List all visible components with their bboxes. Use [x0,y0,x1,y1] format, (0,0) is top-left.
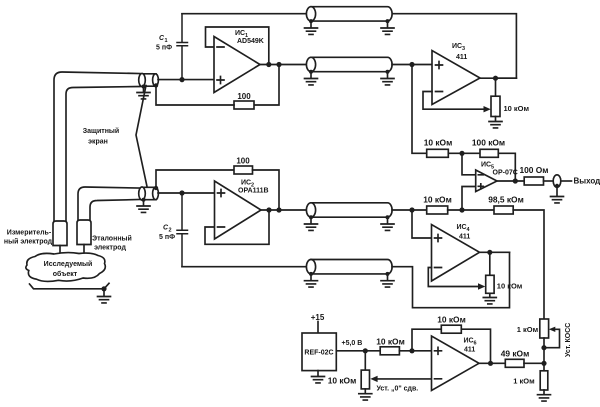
svg-text:ИС: ИС [452,43,462,50]
resistor R14 1 kOhm lower [540,371,548,390]
node object ground junction [101,286,106,291]
label RP10 value [328,375,357,385]
svg-text:Эталонный: Эталонный [92,235,132,243]
node U2 output junction a [266,207,271,212]
wire +5V node to offset pot [364,351,366,370]
cable shield W2 second coax [306,57,392,71]
ground pot RP10 [359,389,372,400]
op-amp U1 AD549K [214,37,260,93]
ground W4 shield right [381,274,394,287]
label RP4 value [497,282,523,291]
svg-text:ИС: ИС [464,338,474,345]
op-amp U4 411 [432,225,480,282]
wire U5 inverting input stub [462,153,476,175]
svg-text:10 кОм: 10 кОм [376,336,405,346]
wire R5 to U5 output [498,153,515,181]
label U1 designator [235,30,264,45]
cable shield W3 third coax [306,203,392,217]
capacitor C2 [177,193,188,267]
pot RP4 10 kOhm [486,275,494,293]
wire reference electrode signal line to connector J2 [90,200,140,222]
node U2 output junction b [276,207,281,212]
pot RP10 10 kOhm offset adjust [361,370,369,389]
svg-text:Выход: Выход [574,177,600,186]
ground pot RP3 [489,117,502,128]
ground W2 shield right [381,72,394,85]
svg-text:Исследуемый: Исследуемый [44,260,93,268]
op-amp U2 feedback loop wire [205,210,269,244]
svg-text:98,5 кОм: 98,5 кОм [488,194,524,204]
label R7 value [423,194,452,204]
node J1 shield right point [154,83,158,87]
voltage reference U7 REF-02C box [302,333,336,371]
label reference electrode [92,235,132,252]
svg-text:+15: +15 [311,313,325,322]
ground W1 shield left [305,21,318,34]
connector J2 coax jack [139,187,159,200]
label R5 value [472,138,505,148]
op-amp U6 411 [432,336,480,391]
ground W3 shield left [305,217,318,230]
connector output jack [553,175,561,187]
node U3 output junction [493,76,498,81]
node W3 shield right [386,215,390,219]
wire guard drive 2 to U2 output [253,170,280,210]
wire U3 output to pot RP3 [495,78,497,96]
wire R12 to KOCC rail [524,362,544,364]
wire C2 bootstrap to cable W4 [182,266,307,268]
label R1 value 100 [237,92,251,101]
label U2 designator [238,180,269,195]
node U6 output junction [488,361,493,366]
svg-text:Уст. КОСС: Уст. КОСС [565,323,572,357]
svg-text:Уст. „0" сдв.: Уст. „0" сдв. [377,386,419,393]
svg-text:REF-02C: REF-02C [304,350,333,357]
wire guard drive to J1 shield [156,86,234,106]
svg-text:100: 100 [236,157,250,166]
ground object [98,289,111,303]
node U1 output junction b [276,62,281,67]
label R4 value [424,138,453,148]
node +5V junction [363,348,368,353]
node 49k junction [541,361,546,366]
ground W4 shield left [305,274,318,287]
ground connector J1 [137,87,150,99]
svg-text:ИС: ИС [481,162,491,169]
svg-text:10 кОм: 10 кОм [497,282,523,291]
wire chassis line under object [30,283,110,289]
cable shield W1 top coax [306,7,392,21]
guard shield leader lines [136,86,147,187]
ground connector J2 [137,200,150,213]
node U6 noninverting junction [409,348,414,353]
wire REF output [336,350,380,352]
node output jack shield [555,184,559,188]
svg-text:ИС: ИС [235,30,245,37]
node W1 shield left [309,19,313,23]
ground R14 [538,390,551,401]
node W2 output junction [409,62,414,67]
node C1 junction at IC1 input [179,77,184,82]
label output [574,177,600,186]
pot RP13 1 kOhm KOCC [540,319,549,338]
label U4 designator [457,224,471,241]
svg-text:электрод: электрод [94,245,126,252]
op-amp U5 OP-07C [476,170,497,192]
label R6 value [519,165,548,175]
svg-text:OPA111B: OPA111B [238,188,269,195]
ground W2 shield left [305,72,318,85]
op-amp U1 feedback loop wire [206,27,269,65]
node U5 inverting junction [459,151,464,156]
wire U6 output to R12 [479,362,505,364]
node C2 junction at IC2 input [179,190,184,195]
svg-text:экран: экран [88,138,108,145]
svg-text:100 кОм: 100 кОм [472,138,505,148]
pot RP3 10 kOhm [491,96,500,116]
svg-text:10 кОм: 10 кОм [424,138,453,148]
svg-text:1: 1 [165,38,168,44]
svg-text:1 кОм: 1 кОм [513,377,535,386]
resistor R1 100 guard drive [234,101,254,109]
resistor R10 10 kOhm to U6 noninverting [380,347,399,355]
wire output jack to label [561,180,572,182]
label R2 value 100 [236,157,250,166]
wire U6 feedback loop [412,329,441,351]
label object under test [44,260,93,278]
wire W3 to summing row [392,209,427,211]
node W4 shield left [309,272,313,276]
label C1 value [156,35,172,52]
node W4 shield right [386,272,390,276]
wire U4 output to pot RP4 [489,252,491,275]
wire W2 to IC3 noninverting input [392,64,432,66]
svg-text:411: 411 [464,347,475,354]
cable shield W4 fourth coax [306,260,392,274]
wire U3 output [480,77,516,79]
pot RP10 wiper arrow [370,376,377,382]
label U6 designator [464,338,477,354]
svg-text:10 кОм: 10 кОм [328,375,357,385]
node U5 output junction [513,178,518,183]
svg-text:3: 3 [462,46,465,52]
node RP13 wiper junction [541,345,546,350]
connector J1 coax jack [139,73,159,86]
resistor R2 100 guard drive 2 [234,166,253,174]
svg-text:10 кОм: 10 кОм [437,314,466,324]
wire U5 output to R6 [497,180,524,182]
svg-text:5 пФ: 5 пФ [159,234,175,241]
resistor R7 10 kOhm to U5 noninverting [427,206,448,214]
resistor R4 10 kOhm to U5 inverting [427,149,449,157]
node U1 output junction a [266,62,271,67]
label R12 value [501,348,530,358]
svg-text:ный электрод: ный электрод [4,238,53,246]
wire measuring electrode signal line to connector J1 [66,87,140,223]
label offset adjust [377,386,419,393]
label R11 value [437,314,466,324]
object under test blob [26,253,105,282]
ground pot RP4 [483,293,496,304]
node J2 shield ground point [142,198,146,202]
wire U4 inverting input to pot wiper [428,268,479,287]
node W1 shield right [386,19,390,23]
label +5.0 V [342,340,363,347]
label R10 value [376,336,405,346]
wire U2 output to cable W3 [261,209,307,211]
label RP3 value [504,104,530,113]
svg-text:Защитный: Защитный [83,127,119,135]
measuring electrode body [53,221,67,254]
wire R11 to U6 output [461,329,490,363]
node U5 noninverting tap [459,207,464,212]
svg-text:411: 411 [456,54,467,61]
wire W2 node down to difference row [412,65,427,154]
wire U1 output to cable W2 [260,64,307,66]
label U7 REF-02C [304,350,333,357]
wire J1 center conductor to IC1 noninverting input [158,79,214,81]
wire RP10 wiper to U6 inverting input [377,378,432,380]
svg-text:объект: объект [53,270,78,278]
svg-text:100: 100 [237,92,251,101]
node U4 output junction [487,250,492,255]
node W2 shield left [309,70,313,74]
node W3 output junction [409,207,414,212]
svg-text:ИС: ИС [241,180,251,187]
op-amp U3 411 [432,51,480,105]
node J1 shield ground point [142,85,146,89]
wire U4 output [480,251,510,253]
label KOCC adjust vertical [565,323,572,357]
wire measuring electrode shield line to connector J1 [54,72,140,222]
op-amp U2 OPA111B [215,181,262,239]
node J2 shield top point [154,186,158,190]
svg-text:Измеритель-: Измеритель- [7,230,52,237]
pot RP13 wiper arrow [549,327,556,332]
svg-text:100 Ом: 100 Ом [519,165,548,175]
wire reference electrode shield line to connector J2 [78,187,140,221]
pot RP4 wiper arrow [478,283,485,289]
ground W3 shield right [381,217,394,230]
ground output jack [551,186,564,203]
ground REF-02C [312,371,325,383]
wire summing row R7 input [412,210,432,238]
label RP13 value [517,325,539,334]
pot RP3 wiper arrow [484,106,491,112]
node W3 shield left [309,215,313,219]
svg-text:OP-07C: OP-07C [493,170,518,177]
svg-text:49 кОм: 49 кОм [501,348,530,358]
wire R8 to KOCC pot rail [513,210,544,319]
resistor R11 10 kOhm feedback [441,325,461,333]
label C2 value [159,225,175,242]
svg-text:411: 411 [459,234,470,241]
wire U3 inverting input to pot wiper [423,92,485,110]
wire R10 to U6 noninverting input [399,350,431,352]
wire R4 to R5 [448,152,480,154]
wire guard drive from U1 output down to resistor row [254,65,279,106]
svg-text:2: 2 [169,228,172,234]
node W2 shield right [386,70,390,74]
label measuring electrode [4,230,53,246]
label R8 value [488,194,524,204]
wire R7 to R8 [448,209,494,211]
resistor R6 100 Ohm output [524,177,543,185]
wire bootstrap top run C1 to IC3 output [182,14,516,79]
wire RP13 wiper to rail [544,329,560,347]
ground W1 shield right [381,21,394,34]
svg-text:AD549K: AD549K [237,38,264,45]
wire W4 bootstrap to IC4 output [392,252,510,307]
wire U5 noninverting input stub [462,187,476,211]
label R14 value [513,377,535,386]
resistor R8 98.5 kOhm [494,206,513,214]
resistor R5 100 kOhm feedback [480,149,498,157]
svg-text:ИС: ИС [457,224,467,231]
svg-text:+5,0 В: +5,0 В [342,340,363,347]
wire guard drive 2 from J2 shield to resistor [156,170,234,188]
wire J2 center conductor to IC2 noninverting input [158,192,215,194]
reference electrode body [77,220,91,253]
wire KOCC rail middle [543,338,545,371]
label guard shield [83,127,119,146]
wire R6 to output jack [544,180,554,182]
label U5 designator [481,162,518,177]
capacitor C1 [177,14,188,80]
svg-text:10 кОм: 10 кОм [423,194,452,204]
svg-text:5 пФ: 5 пФ [156,45,172,52]
svg-text:10 кОм: 10 кОм [504,104,530,113]
resistor R12 49 kOhm [505,359,524,367]
label U3 designator [452,43,467,61]
svg-text:1 кОм: 1 кОм [517,325,539,334]
label +15 supply [311,313,325,322]
wire +15 to REF-02C [317,322,319,334]
